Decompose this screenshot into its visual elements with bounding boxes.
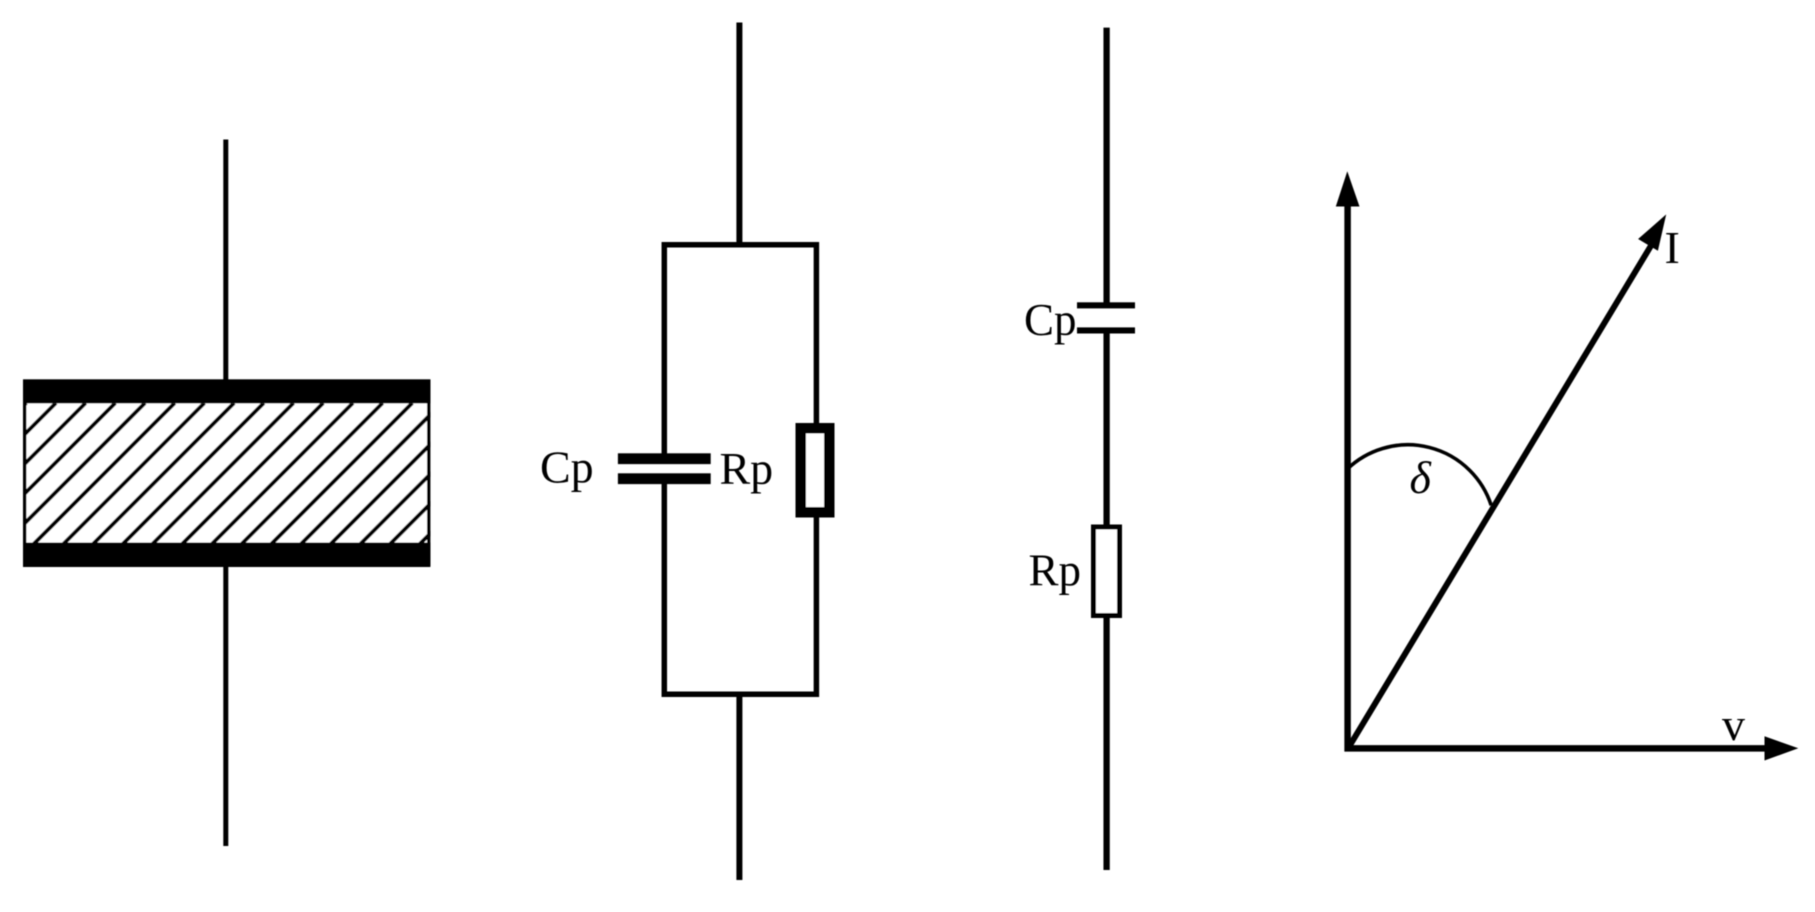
capacitor plate (bottom electrode) (23, 543, 430, 567)
wire: bottom lead of parallel-plate capacitor (223, 565, 228, 846)
svg-text:Rp: Rp (1029, 546, 1082, 596)
wire: top lead of series RC network (1103, 28, 1109, 303)
wire: parallel loop lower half (bottom rail + lower branches) (664, 483, 816, 694)
resistor Rp (series) (1094, 527, 1120, 616)
phasor I (current vector) (1348, 214, 1666, 748)
svg-text:Cp: Cp (1024, 295, 1077, 345)
angle arc delta (loss angle) (1347, 445, 1491, 506)
dielectric hatch (0, 403, 561, 544)
wire: top lead of parallel RC network (736, 23, 742, 246)
svg-text:I: I (1665, 222, 1680, 273)
wire: top lead of parallel-plate capacitor (223, 140, 228, 382)
svg-text:Rp: Rp (720, 443, 774, 494)
axis: horizontal (voltage axis) (1345, 736, 1799, 760)
capacitor Cp (series) (1077, 302, 1135, 333)
capacitor Cp (parallel branch) (618, 453, 711, 484)
capacitor plate (top electrode) (23, 379, 430, 403)
capacitor body outline (dielectric slab) (25, 381, 429, 565)
axis: vertical (current axis) (1336, 171, 1360, 751)
svg-text:δ: δ (1410, 452, 1432, 503)
svg-text:Cp: Cp (540, 442, 594, 493)
wire: parallel loop upper half (top rail + upper branches) (664, 245, 816, 454)
resistor Rp (parallel branch) (801, 428, 830, 512)
wire: middle segment of series RC network (1103, 333, 1109, 527)
wire: bottom lead of series RC network (1103, 616, 1109, 871)
wire: bottom lead of parallel RC network (736, 694, 742, 880)
svg-text:v: v (1722, 699, 1745, 750)
